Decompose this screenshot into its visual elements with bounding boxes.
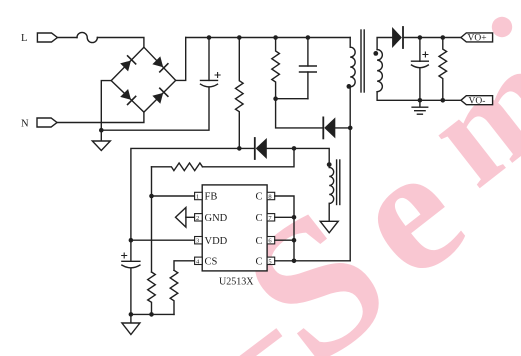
svg-text:2: 2 [196,215,199,222]
fuse F1 [77,32,97,42]
node drain bus p7 [292,215,297,220]
capacitor C1 (bulk) [208,38,210,81]
resistor R2 (snubber) [272,38,280,99]
capacitor C4 (output) [419,38,421,62]
svg-text:8: 8 [268,194,271,201]
wire L to fuse [57,37,77,39]
diode D3 (bridge bottom-left) [120,88,137,105]
pin 1 square [195,192,203,199]
svg-text:C: C [256,256,263,267]
node DC- [99,128,104,133]
wire to aux winding [294,148,329,167]
terminal VO+ [461,33,493,42]
transformer core [360,30,362,92]
bridge diamond wires [111,47,176,112]
pin 8 square [267,192,275,199]
svg-text:N: N [21,118,29,129]
diode D6 (output rectifier) [392,27,402,48]
capacitor C2 (snubber) [307,38,309,67]
wire snubber row [276,98,308,100]
svg-text:VDD: VDD [205,236,228,247]
plus C3 [122,253,127,258]
node snubber [273,96,278,101]
terminal L [37,33,57,42]
svg-text:CS: CS [205,256,218,267]
wire DC- bus to bulk cap [101,87,209,130]
wire pin5 to drain [275,260,351,262]
wire FB vertical [151,167,153,272]
svg-text:5: 5 [268,258,271,265]
wire FB divider top [203,148,295,166]
pin 3 square [195,237,203,244]
node drain bus p6 [292,238,297,243]
watermark dot [492,17,512,37]
pin 6 square [267,237,275,244]
gnd arrow (pin2) [176,208,186,228]
wire ground row [131,313,174,315]
aux polarity dot [327,162,332,167]
diode D1 (bridge top-left) [120,55,137,72]
wire N to bridge bottom [57,112,144,122]
pin 5 square [267,257,275,264]
resistor R6 (CS) [170,270,178,314]
node out R top [441,35,446,40]
watermark letter m [397,13,521,216]
node out cap top [418,35,423,40]
diode D4 (bridge bottom-right) [152,88,169,105]
resistor R1 (startup) [236,38,244,149]
wire right vertex to top bus [176,38,186,81]
inductor L2 (aux winding) [329,167,334,203]
svg-text:GND: GND [205,213,228,224]
bridge diodes [120,55,169,105]
node aux-vdd [292,146,297,151]
node bus-R1 [237,35,242,40]
wire top DC bus [186,37,351,39]
ground (bridge) [92,141,110,151]
earth ground (output) [419,100,421,107]
pin 7 square [267,214,275,221]
wire aux node row [131,148,239,240]
wire snubber to clamp diode [276,99,323,128]
ground (VDD) [130,314,132,323]
svg-text:L: L [21,33,27,44]
wire pin8 to drain bus [275,196,294,261]
node gnd row mid [149,312,154,317]
diode D2 (bridge top-right) [152,56,169,73]
watermark letter e [313,110,497,315]
watermark stroke bottom-left [240,328,283,356]
wire pin6 [275,239,294,241]
primary polarity dot [347,84,352,89]
pin 2 square [195,214,203,221]
node bus-R2 [273,35,278,40]
transformer T1 primary [349,38,351,48]
node drain-clamp [348,126,353,131]
node drain bus p5 [292,259,297,264]
svg-text:C: C [256,192,263,203]
diode D5 (clamp) [322,117,324,138]
svg-text:VO+: VO+ [468,34,487,44]
wire VDD row [131,239,195,241]
svg-text:FB: FB [205,192,218,203]
wire pin7 [275,216,294,218]
resistor R3 (FB upper) [152,163,203,171]
aux core [336,160,338,205]
ground (aux) [320,221,338,233]
svg-text:1: 1 [196,194,199,201]
secondary polarity dot [373,51,378,56]
svg-text:U2513X: U2513X [219,277,254,288]
node bus-C1 [207,35,212,40]
svg-text:C: C [256,236,263,247]
svg-text:3: 3 [196,238,199,245]
node out cap bottom [418,98,423,103]
node X left [237,146,242,151]
wire CS network [174,261,195,271]
terminal N [37,118,57,127]
svg-text:C: C [256,213,263,224]
pin 4 square [195,257,203,264]
resistor R4 (FB lower) [148,272,156,314]
wire FB to pin1 [152,195,195,197]
diode D7 (VDD rectifier) [239,147,254,149]
plus C1 [215,73,220,78]
resistor R8 (output load) [439,38,447,101]
node out R bottom [441,98,446,103]
svg-text:VO-: VO- [469,97,486,107]
node VDD [129,238,134,243]
IC U1 body [202,185,267,271]
node FB [149,194,154,199]
wire left vertex to ground drop [101,81,111,141]
terminal VO- [461,96,493,105]
plus C4 [423,52,428,57]
transformer T1 secondary [377,38,392,50]
wire fuse to bridge top [97,38,143,48]
capacitor C3 (VDD) [130,240,132,261]
node gnd row left [129,312,134,317]
node bus-C2 [306,35,311,40]
watermark letter S [205,165,426,356]
